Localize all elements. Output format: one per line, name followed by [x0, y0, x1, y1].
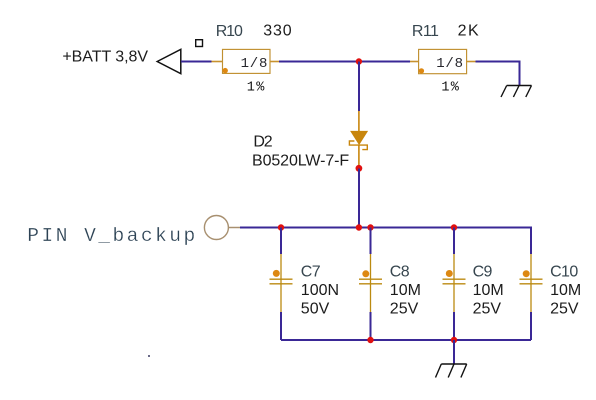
resistor R10	[223, 49, 271, 73]
resistor R11	[419, 49, 467, 73]
R10 pin 2 stub	[270, 61, 279, 63]
pin connector circle V_backup	[204, 216, 228, 240]
diode D2 schottky cathode bar	[349, 141, 367, 150]
junction dot diode cathode	[356, 165, 363, 172]
svg-text:C10: C10	[550, 264, 578, 281]
pin stub	[228, 227, 240, 229]
junction dot C7 top	[278, 224, 284, 230]
svg-text:25V: 25V	[390, 301, 419, 318]
svg-text:1%: 1%	[247, 81, 266, 96]
node marker square	[196, 40, 203, 47]
junction dot C8 bottom	[367, 337, 373, 343]
power symbol +BATT triangle	[157, 49, 181, 73]
wire junction VD down to diode	[358, 62, 360, 112]
junction dot C8 top	[367, 224, 373, 230]
junction dot diode bottom	[356, 224, 362, 230]
wire C7 top lead	[280, 228, 282, 255]
svg-text:10M: 10M	[550, 282, 581, 299]
junction dot C9 bottom / ground	[451, 337, 457, 343]
ground GND2 bottom	[436, 364, 467, 378]
svg-text:10M: 10M	[390, 282, 421, 299]
svg-text:R10: R10	[216, 23, 243, 40]
svg-text:330: 330	[263, 22, 292, 39]
wire C8 bottom lead	[370, 312, 372, 340]
R11 pin1 orange dot	[419, 68, 424, 73]
wire R11 to ground	[476, 62, 520, 86]
svg-text:+BATT 3,8V: +BATT 3,8V	[62, 49, 148, 66]
stray speck artifact	[148, 355, 150, 357]
junction dot C9 top	[451, 224, 457, 230]
ground GND1 top right	[501, 86, 532, 98]
svg-text:PIN V_backup: PIN V_backup	[27, 225, 197, 247]
svg-text:D2: D2	[253, 133, 272, 150]
svg-text:1/8: 1/8	[436, 56, 464, 72]
wire diode to top bus	[358, 168, 360, 227]
svg-text:1/8: 1/8	[241, 56, 269, 72]
capacitor C7	[270, 254, 293, 312]
bottom bus wire	[281, 339, 531, 341]
svg-text:25V: 25V	[473, 301, 502, 318]
wire ground stem	[453, 340, 455, 364]
svg-text:C9: C9	[473, 264, 493, 281]
wire C10 bottom lead	[530, 312, 532, 340]
diode D2 anode lead	[358, 111, 360, 132]
svg-text:100N: 100N	[301, 282, 339, 299]
wire +BATT to R10	[181, 61, 212, 63]
diode D2 cathode lead	[358, 145, 360, 166]
diode D2 triangle	[351, 131, 367, 144]
top bus wire	[240, 228, 531, 255]
junction dot node VD	[356, 58, 362, 64]
svg-text:C7: C7	[301, 264, 321, 281]
wire R10 to R11	[279, 61, 410, 63]
wire C7 bottom lead	[280, 312, 282, 340]
capacitor C10	[520, 254, 543, 312]
R11 pin 1 stub	[410, 61, 419, 63]
capacitor C8	[359, 254, 382, 312]
wire C8 top lead	[370, 228, 372, 255]
capacitor C9	[443, 254, 466, 312]
wire C9 bottom lead	[453, 312, 455, 340]
svg-text:25V: 25V	[550, 301, 579, 318]
svg-text:1%: 1%	[441, 81, 460, 96]
R10 pin 1 stub	[212, 61, 223, 63]
svg-text:B0520LW-7-F: B0520LW-7-F	[252, 153, 349, 170]
svg-text:10M: 10M	[473, 282, 504, 299]
svg-text:50V: 50V	[301, 301, 330, 318]
wire C9 top lead	[453, 228, 455, 255]
svg-text:2K: 2K	[458, 22, 481, 39]
svg-text:R11: R11	[412, 23, 439, 40]
R10 pin1 orange dot	[223, 68, 228, 73]
R11 pin 2 stub	[467, 61, 476, 63]
svg-text:C8: C8	[390, 264, 410, 281]
